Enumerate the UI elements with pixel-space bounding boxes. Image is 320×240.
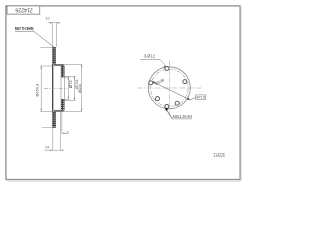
dimension center hole 72 <box>65 77 70 99</box>
dimension 24 (bottom height) <box>45 128 63 150</box>
ring middle left edge line <box>52 64 54 111</box>
svg-text:Ø71.5: Ø71.5 <box>196 95 205 100</box>
leader to disc corner <box>34 31 55 47</box>
svg-text:MIN TH 8MM: MIN TH 8MM <box>15 26 34 31</box>
bolt holes <box>149 67 187 109</box>
svg-text:Ø72: Ø72 <box>68 80 73 89</box>
hub flange hatched (upper part) <box>61 66 64 77</box>
bottom step band <box>54 110 63 112</box>
bolt circle (dash-dot) <box>151 69 189 107</box>
svg-text:3: 3 <box>67 131 69 135</box>
hub flange hatched (lower part) <box>61 99 64 110</box>
drawing frame <box>6 6 240 180</box>
hub flange center-hole edges <box>61 77 64 99</box>
dimension left (ring inner dia) <box>40 66 52 111</box>
svg-text:24: 24 <box>45 146 49 150</box>
top step band <box>54 64 63 66</box>
outer circle <box>148 67 190 109</box>
diagonal dimension through holes <box>152 81 190 100</box>
disc bottom edge extension <box>42 127 52 129</box>
svg-text:Ø154.3: Ø154.3 <box>34 83 39 96</box>
dimension 3 (flange offset) <box>61 112 69 150</box>
friction ring hatched section (lower) <box>52 112 56 128</box>
boxed dimension <box>196 95 206 100</box>
svg-text:214226: 214226 <box>15 7 32 13</box>
frame shadow <box>7 7 242 181</box>
svg-text:Ø73.6: Ø73.6 <box>74 79 79 89</box>
friction ring hatched section (upper) <box>52 47 56 64</box>
horizontal centerline <box>138 87 202 89</box>
svg-text:3-Ø12: 3-Ø12 <box>144 54 156 59</box>
title box <box>7 6 40 14</box>
dimension 10 (top thickness) <box>48 23 61 47</box>
svg-text:10: 10 <box>46 17 50 21</box>
svg-text:M8x1.25-6H: M8x1.25-6H <box>173 114 193 119</box>
dimension recess 73.6 <box>65 76 76 100</box>
centerline of section <box>44 87 67 89</box>
svg-text:214226: 214226 <box>214 153 225 159</box>
disc top edge extension <box>40 46 52 48</box>
dimension right tall (flange dia) <box>52 65 82 112</box>
vertical centerline <box>168 61 170 118</box>
